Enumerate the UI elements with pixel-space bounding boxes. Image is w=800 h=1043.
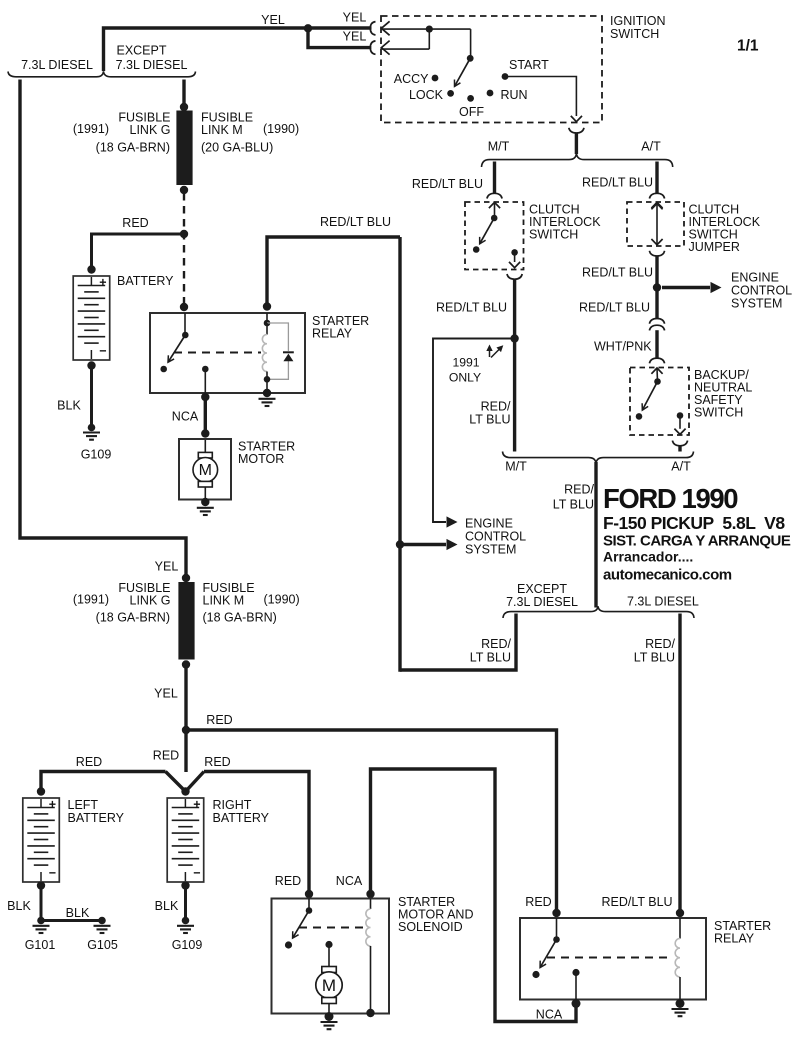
svg-text:LINK G: LINK G — [130, 123, 171, 137]
node battery B1 positive — [87, 265, 95, 273]
wire A/T branch RED/LT BLU — [655, 162, 658, 194]
wire RED to battery — [92, 234, 185, 270]
wire ignition output to M/T-A/T split — [575, 133, 578, 154]
svg-text:+: + — [99, 276, 106, 290]
svg-text:M/T: M/T — [505, 460, 527, 474]
clutch interlock switch wiper — [491, 215, 498, 222]
svg-text:NCA: NCA — [172, 410, 199, 424]
svg-text:ONLY: ONLY — [449, 371, 481, 385]
svg-text:RED/LT BLU: RED/LT BLU — [579, 301, 650, 315]
svg-text:SOLENOID: SOLENOID — [398, 920, 463, 934]
wire BLK battery B1 to ground — [90, 366, 93, 425]
arrow marker 1991 only (vertical) — [489, 349, 491, 357]
svg-text:RED: RED — [153, 749, 179, 763]
svg-text:RED: RED — [206, 713, 232, 727]
svg-text:WHT/PNK: WHT/PNK — [594, 340, 652, 354]
svg-text:NCA: NCA — [536, 1008, 563, 1022]
svg-text:RED/LT BLU: RED/LT BLU — [412, 177, 483, 191]
ignition contact LOCK — [447, 90, 454, 97]
node J6 RED distribution — [182, 726, 190, 734]
svg-text:START: START — [509, 58, 549, 72]
svg-text:ACCY: ACCY — [394, 72, 429, 86]
svg-text:(18 GA-BRN): (18 GA-BRN) — [203, 611, 277, 625]
node bottom relay RED terminal — [552, 909, 560, 917]
wire ignition feed internal — [428, 29, 430, 49]
wire BLK between G101 and G105 — [41, 919, 102, 922]
svg-text:RED/LT BLU: RED/LT BLU — [320, 215, 391, 229]
starter relay K1 coil branch — [266, 313, 268, 323]
svg-text:RELAY: RELAY — [714, 932, 755, 946]
svg-text:SYSTEM: SYSTEM — [731, 297, 782, 311]
wire RED/LT BLU starter relay to riser — [267, 237, 400, 307]
starter relay K1 enclosure — [150, 313, 305, 393]
svg-text:YEL: YEL — [155, 560, 179, 574]
node solenoid RED terminal — [305, 890, 313, 898]
node above fusible link G/M (bottom) — [182, 574, 190, 582]
svg-text:RED: RED — [525, 895, 551, 909]
svg-text:7.3L DIESEL: 7.3L DIESEL — [21, 58, 93, 72]
svg-text:MOTOR: MOTOR — [238, 452, 284, 466]
svg-text:RED: RED — [204, 755, 230, 769]
left battery B2 — [23, 798, 60, 882]
node starter relay K1 switch-side terminal — [263, 302, 271, 310]
connector CN8 inline — [649, 319, 664, 324]
svg-text:RED: RED — [122, 216, 148, 230]
wire M/T branch down to merge — [513, 279, 516, 452]
ignition switch wiper lever — [467, 55, 474, 62]
ignition switch S1 dashed enclosure — [381, 16, 602, 123]
wire A/T branch below tap — [655, 288, 658, 319]
node starter relay K2 coil ground — [676, 999, 685, 1008]
svg-text:+: + — [193, 798, 200, 812]
svg-text:M: M — [322, 976, 336, 995]
node starter relay K1 coil bottom — [264, 376, 271, 383]
node NCA wire bottom — [572, 999, 581, 1008]
node bottom relay RED/LT BLU terminal — [676, 909, 684, 917]
svg-text:LT BLU: LT BLU — [634, 651, 675, 665]
ignition contact OFF — [467, 95, 474, 102]
svg-text:BATTERY: BATTERY — [213, 811, 270, 825]
starter motor and solenoid M2 enclosure — [272, 899, 390, 1014]
svg-text:EXCEPT: EXCEPT — [116, 44, 166, 58]
wire START output inside ignition switch — [505, 77, 576, 117]
wire 7.3L diesel left branch — [20, 80, 186, 580]
svg-text:RED/: RED/ — [481, 637, 511, 651]
svg-text:ENGINE: ENGINE — [731, 271, 779, 285]
svg-text:RED/LT BLU: RED/LT BLU — [582, 176, 653, 190]
starter relay K1 open contact — [160, 366, 167, 373]
node above fusible link G/M (top) — [180, 103, 188, 111]
svg-text:(1990): (1990) — [264, 593, 300, 607]
wire M/T branch RED/LT BLU — [493, 162, 496, 194]
svg-text:BATTERY: BATTERY — [68, 811, 125, 825]
solenoid switch open contact — [285, 941, 292, 948]
connector CN10 below backup/neutral safety switch — [672, 441, 687, 446]
connector CN4 at clutch interlock switch input — [487, 193, 502, 198]
node left battery positive — [37, 787, 45, 795]
wire RED to bottom starter relay — [186, 730, 557, 913]
arrow into engine control system (upper) — [447, 516, 458, 527]
svg-text:RIGHT: RIGHT — [213, 798, 252, 812]
svg-text:G109: G109 — [172, 938, 203, 952]
wire V-split to right battery — [166, 772, 205, 792]
wire except-diesel right branch — [182, 80, 185, 110]
starter relay K1 diode D1 — [283, 351, 294, 353]
right battery B3 — [167, 798, 204, 882]
svg-text:LINK M: LINK M — [201, 123, 243, 137]
node left battery negative — [37, 881, 45, 889]
backup/neutral safety switch open contact — [636, 413, 643, 420]
node starter motor M1 ground terminal — [201, 498, 209, 506]
connector CN5 below clutch interlock switch — [507, 274, 522, 279]
wire YEL below fusible link 2 — [184, 665, 187, 773]
starter relay K2 coil L3 — [679, 918, 681, 939]
starter relay K1 NCA output terminal — [202, 366, 209, 373]
clutch interlock switch output terminal — [511, 249, 518, 256]
backup/neutral safety switch S3 dashed enclosure — [630, 368, 689, 436]
svg-text:−: − — [193, 866, 200, 880]
svg-text:RUN: RUN — [501, 88, 528, 102]
node below fusible link G/M (top) — [180, 186, 188, 194]
starter relay K2 actuation dashed link — [547, 957, 671, 959]
starter relay K1 actuation dashed link — [174, 352, 261, 354]
starter relay K1 coil L1 — [266, 323, 268, 335]
ground at starter motor M1 — [197, 507, 214, 509]
svg-text:1991: 1991 — [452, 356, 479, 370]
starter motor M1 — [179, 439, 231, 500]
wire 7.3L diesel branch to bottom starter relay — [678, 614, 681, 914]
node starter motor M2 ground terminal — [325, 1012, 334, 1021]
clutch interlock switch jumper internal wire — [656, 204, 658, 245]
connector CN3 below ignition switch — [569, 128, 584, 133]
wire merged output — [594, 462, 597, 608]
ignition contact START — [502, 73, 509, 80]
backup/neutral safety switch output terminal — [677, 412, 684, 419]
starter motor M2 — [322, 967, 337, 973]
svg-text:(1990): (1990) — [263, 122, 299, 136]
connector CN1 (YEL upper) at ignition switch — [370, 22, 375, 35]
dashed wire fusible link to starter relay — [183, 193, 185, 307]
svg-text:ENGINE: ENGINE — [465, 517, 513, 531]
connector CN2 (YEL lower) at ignition switch — [370, 41, 375, 54]
svg-text:EXCEPT: EXCEPT — [517, 582, 567, 596]
svg-text:M/T: M/T — [488, 140, 510, 154]
wire except-diesel branch loop — [400, 614, 516, 671]
svg-text:RED/LT BLU: RED/LT BLU — [602, 895, 673, 909]
wire NCA to starter motor — [204, 397, 207, 435]
svg-text:OFF: OFF — [459, 105, 484, 119]
backup/neutral safety switch wiper — [654, 378, 661, 385]
svg-text:Arrancador....: Arrancador.... — [603, 549, 693, 565]
svg-text:RED/: RED/ — [564, 483, 594, 497]
node J5 RED tap — [180, 230, 188, 238]
svg-text:BLK: BLK — [66, 906, 90, 920]
node ground G109 (top) — [88, 424, 96, 432]
connector CN7 below jumper — [649, 251, 664, 256]
arrow to engine control system (right) — [662, 286, 710, 289]
svg-text:CONTROL: CONTROL — [465, 530, 526, 544]
svg-text:RED: RED — [76, 755, 102, 769]
svg-text:BLK: BLK — [7, 899, 31, 913]
wire YEL trunk from EXCEPT-7.3L-DIESEL split to ignition switch — [104, 28, 372, 71]
ground at starter motor M2 — [321, 1021, 338, 1023]
node right battery negative — [181, 881, 189, 889]
svg-text:LINK G: LINK G — [130, 594, 171, 608]
svg-text:M: M — [199, 462, 212, 479]
svg-text:1/1: 1/1 — [737, 38, 759, 55]
ground G109 (bottom) — [177, 925, 194, 927]
svg-text:(1991): (1991) — [73, 122, 109, 136]
clutch interlock switch S2 dashed enclosure — [465, 202, 524, 270]
node ground G105 — [98, 917, 106, 925]
starter relay K2 NCA output terminal — [572, 969, 579, 976]
svg-text:BLK: BLK — [155, 899, 179, 913]
svg-text:F-150 PICKUP 5.8L V8: F-150 PICKUP 5.8L V8 — [603, 513, 785, 533]
svg-text:RED/: RED/ — [645, 637, 675, 651]
wire 1991-only tap to engine control system — [433, 339, 515, 523]
node starter relay K1 ground terminal — [263, 389, 271, 397]
svg-text:A/T: A/T — [641, 140, 661, 154]
svg-text:7.3L DIESEL: 7.3L DIESEL — [627, 595, 699, 609]
svg-text:LINK M: LINK M — [203, 594, 245, 608]
solenoid coil output to box bottom — [370, 946, 372, 1013]
svg-text:A/T: A/T — [671, 460, 691, 474]
starter relay K1 wiper — [184, 313, 186, 335]
svg-text:(18 GA-BRN): (18 GA-BRN) — [96, 611, 170, 625]
svg-text:SWITCH: SWITCH — [610, 27, 659, 41]
wire RED to left battery — [41, 772, 166, 792]
ground G105 — [94, 925, 111, 927]
ground at starter relay K2 — [672, 1008, 689, 1010]
node solenoid coil ground — [366, 1009, 374, 1017]
node J4 engine control tap — [653, 283, 661, 291]
svg-text:IGNITION: IGNITION — [610, 14, 666, 28]
clutch interlock switch jumper dashed enclosure — [627, 202, 684, 246]
split bracket EXCEPT 7.3L DIESEL / 7.3L DIESEL — [503, 606, 694, 618]
node starter relay K1 coil-side terminal — [180, 303, 188, 311]
node battery B1 negative — [87, 361, 95, 369]
svg-text:+: + — [49, 798, 56, 812]
svg-text:LT BLU: LT BLU — [553, 498, 594, 512]
svg-text:LEFT: LEFT — [68, 798, 99, 812]
svg-text:(1991): (1991) — [73, 593, 109, 607]
node NCA wire top — [201, 393, 209, 401]
connector CN6 at clutch interlock switch jumper input — [649, 193, 664, 198]
node J3 on riser — [396, 540, 404, 548]
svg-text:G101: G101 — [25, 938, 56, 952]
svg-text:YEL: YEL — [261, 13, 285, 27]
svg-text:RED/LT BLU: RED/LT BLU — [582, 266, 653, 280]
solenoid coil L2 — [370, 899, 372, 910]
ground G101 — [33, 925, 50, 927]
svg-text:G105: G105 — [87, 938, 118, 952]
fusible link G / M (top) element — [176, 111, 192, 186]
node ground G109 (bottom) — [182, 917, 190, 925]
svg-text:7.3L DIESEL: 7.3L DIESEL — [506, 595, 578, 609]
arrow marker 1991 only (diagonal) — [491, 349, 500, 358]
svg-text:LOCK: LOCK — [409, 88, 444, 102]
wire NCA starter solenoid to bottom starter relay — [371, 769, 577, 1022]
wire RED to starter solenoid — [204, 772, 309, 895]
wire A/T branch to merge — [678, 445, 681, 451]
svg-text:RED: RED — [275, 874, 301, 888]
solenoid actuation dashed link — [299, 927, 366, 929]
wire riser x400 down to except-diesel loop — [398, 237, 401, 672]
fusible link G / M (bottom) element — [178, 582, 194, 660]
svg-text:YEL: YEL — [343, 30, 367, 44]
svg-text:7.3L DIESEL: 7.3L DIESEL — [116, 58, 188, 72]
starter relay K2 wiper — [556, 918, 558, 940]
wire BLK right battery — [184, 886, 187, 918]
split bracket M/T - A/T — [482, 153, 673, 167]
split bracket 7.3L DIESEL / EXCEPT 7.3L DIESEL (top) — [8, 71, 196, 77]
wire WHT/PNK — [655, 330, 658, 358]
ground at starter relay K1 — [259, 398, 276, 400]
node J1 on YEL wire — [304, 24, 312, 32]
arrow to engine control system (lower) — [400, 543, 446, 546]
svg-text:FORD 1990: FORD 1990 — [603, 483, 738, 514]
node J2 1991-only tap — [510, 334, 518, 342]
battery B1 — [73, 276, 110, 360]
svg-text:(20 GA-BLU): (20 GA-BLU) — [201, 141, 273, 155]
svg-text:JUMPER: JUMPER — [689, 240, 740, 254]
svg-text:LT BLU: LT BLU — [470, 651, 511, 665]
wire A/T branch to engine-control node — [655, 256, 658, 288]
connector CN9 at backup/neutral safety switch — [649, 358, 664, 363]
svg-text:SIST. CARGA Y ARRANQUE: SIST. CARGA Y ARRANQUE — [603, 533, 791, 550]
starter motor M2 input terminal — [325, 941, 332, 948]
svg-text:(18 GA-BRN): (18 GA-BRN) — [96, 141, 170, 155]
svg-text:YEL: YEL — [154, 687, 178, 701]
starter relay K2 open contact — [532, 971, 539, 978]
svg-text:NCA: NCA — [336, 874, 363, 888]
wire BLK left battery — [40, 886, 43, 918]
merge bracket M/T - A/T — [503, 452, 694, 464]
solenoid switch wiper — [308, 899, 310, 911]
node ground G101 — [37, 917, 45, 925]
svg-text:RED/LT BLU: RED/LT BLU — [436, 301, 507, 315]
clutch interlock switch open contact — [473, 246, 480, 253]
svg-text:LT BLU: LT BLU — [469, 413, 510, 427]
node solenoid NCA terminal — [366, 890, 374, 898]
svg-text:CONTROL: CONTROL — [731, 284, 792, 298]
node right battery positive — [181, 787, 189, 795]
node below fusible link G/M (bottom) — [182, 660, 190, 668]
ignition contact ACCY — [432, 75, 439, 82]
wire YEL branch to second ignition connector — [308, 28, 371, 47]
starter relay K2 enclosure — [520, 918, 706, 1000]
ignition contact RUN — [487, 90, 494, 97]
svg-text:BATTERY: BATTERY — [117, 274, 174, 288]
node on ignition feed wire — [426, 26, 433, 33]
svg-text:−: − — [49, 866, 56, 880]
svg-text:RED/: RED/ — [481, 400, 511, 414]
node starter motor M1 input — [201, 429, 209, 437]
svg-text:G109: G109 — [81, 448, 112, 462]
svg-text:RELAY: RELAY — [312, 327, 353, 341]
ground G109 (top) — [83, 431, 100, 433]
svg-text:SWITCH: SWITCH — [694, 406, 743, 420]
svg-text:SYSTEM: SYSTEM — [465, 543, 516, 557]
svg-text:YEL: YEL — [343, 11, 367, 25]
svg-text:−: − — [99, 344, 106, 358]
svg-text:SWITCH: SWITCH — [529, 228, 578, 242]
svg-text:automecanico.com: automecanico.com — [603, 567, 732, 584]
svg-text:BLK: BLK — [57, 399, 81, 413]
